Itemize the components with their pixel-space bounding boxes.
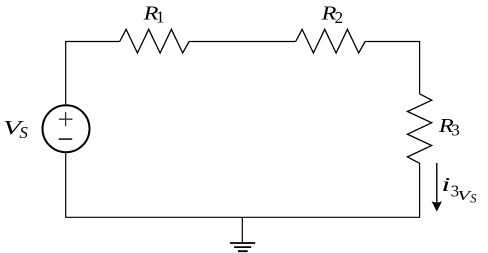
svg-text:i: i	[441, 174, 450, 196]
svg-text:2: 2	[335, 8, 344, 27]
svg-text:3: 3	[451, 121, 460, 140]
svg-text:S: S	[19, 123, 28, 142]
svg-text:S: S	[470, 192, 477, 206]
svg-text:1: 1	[156, 8, 165, 27]
